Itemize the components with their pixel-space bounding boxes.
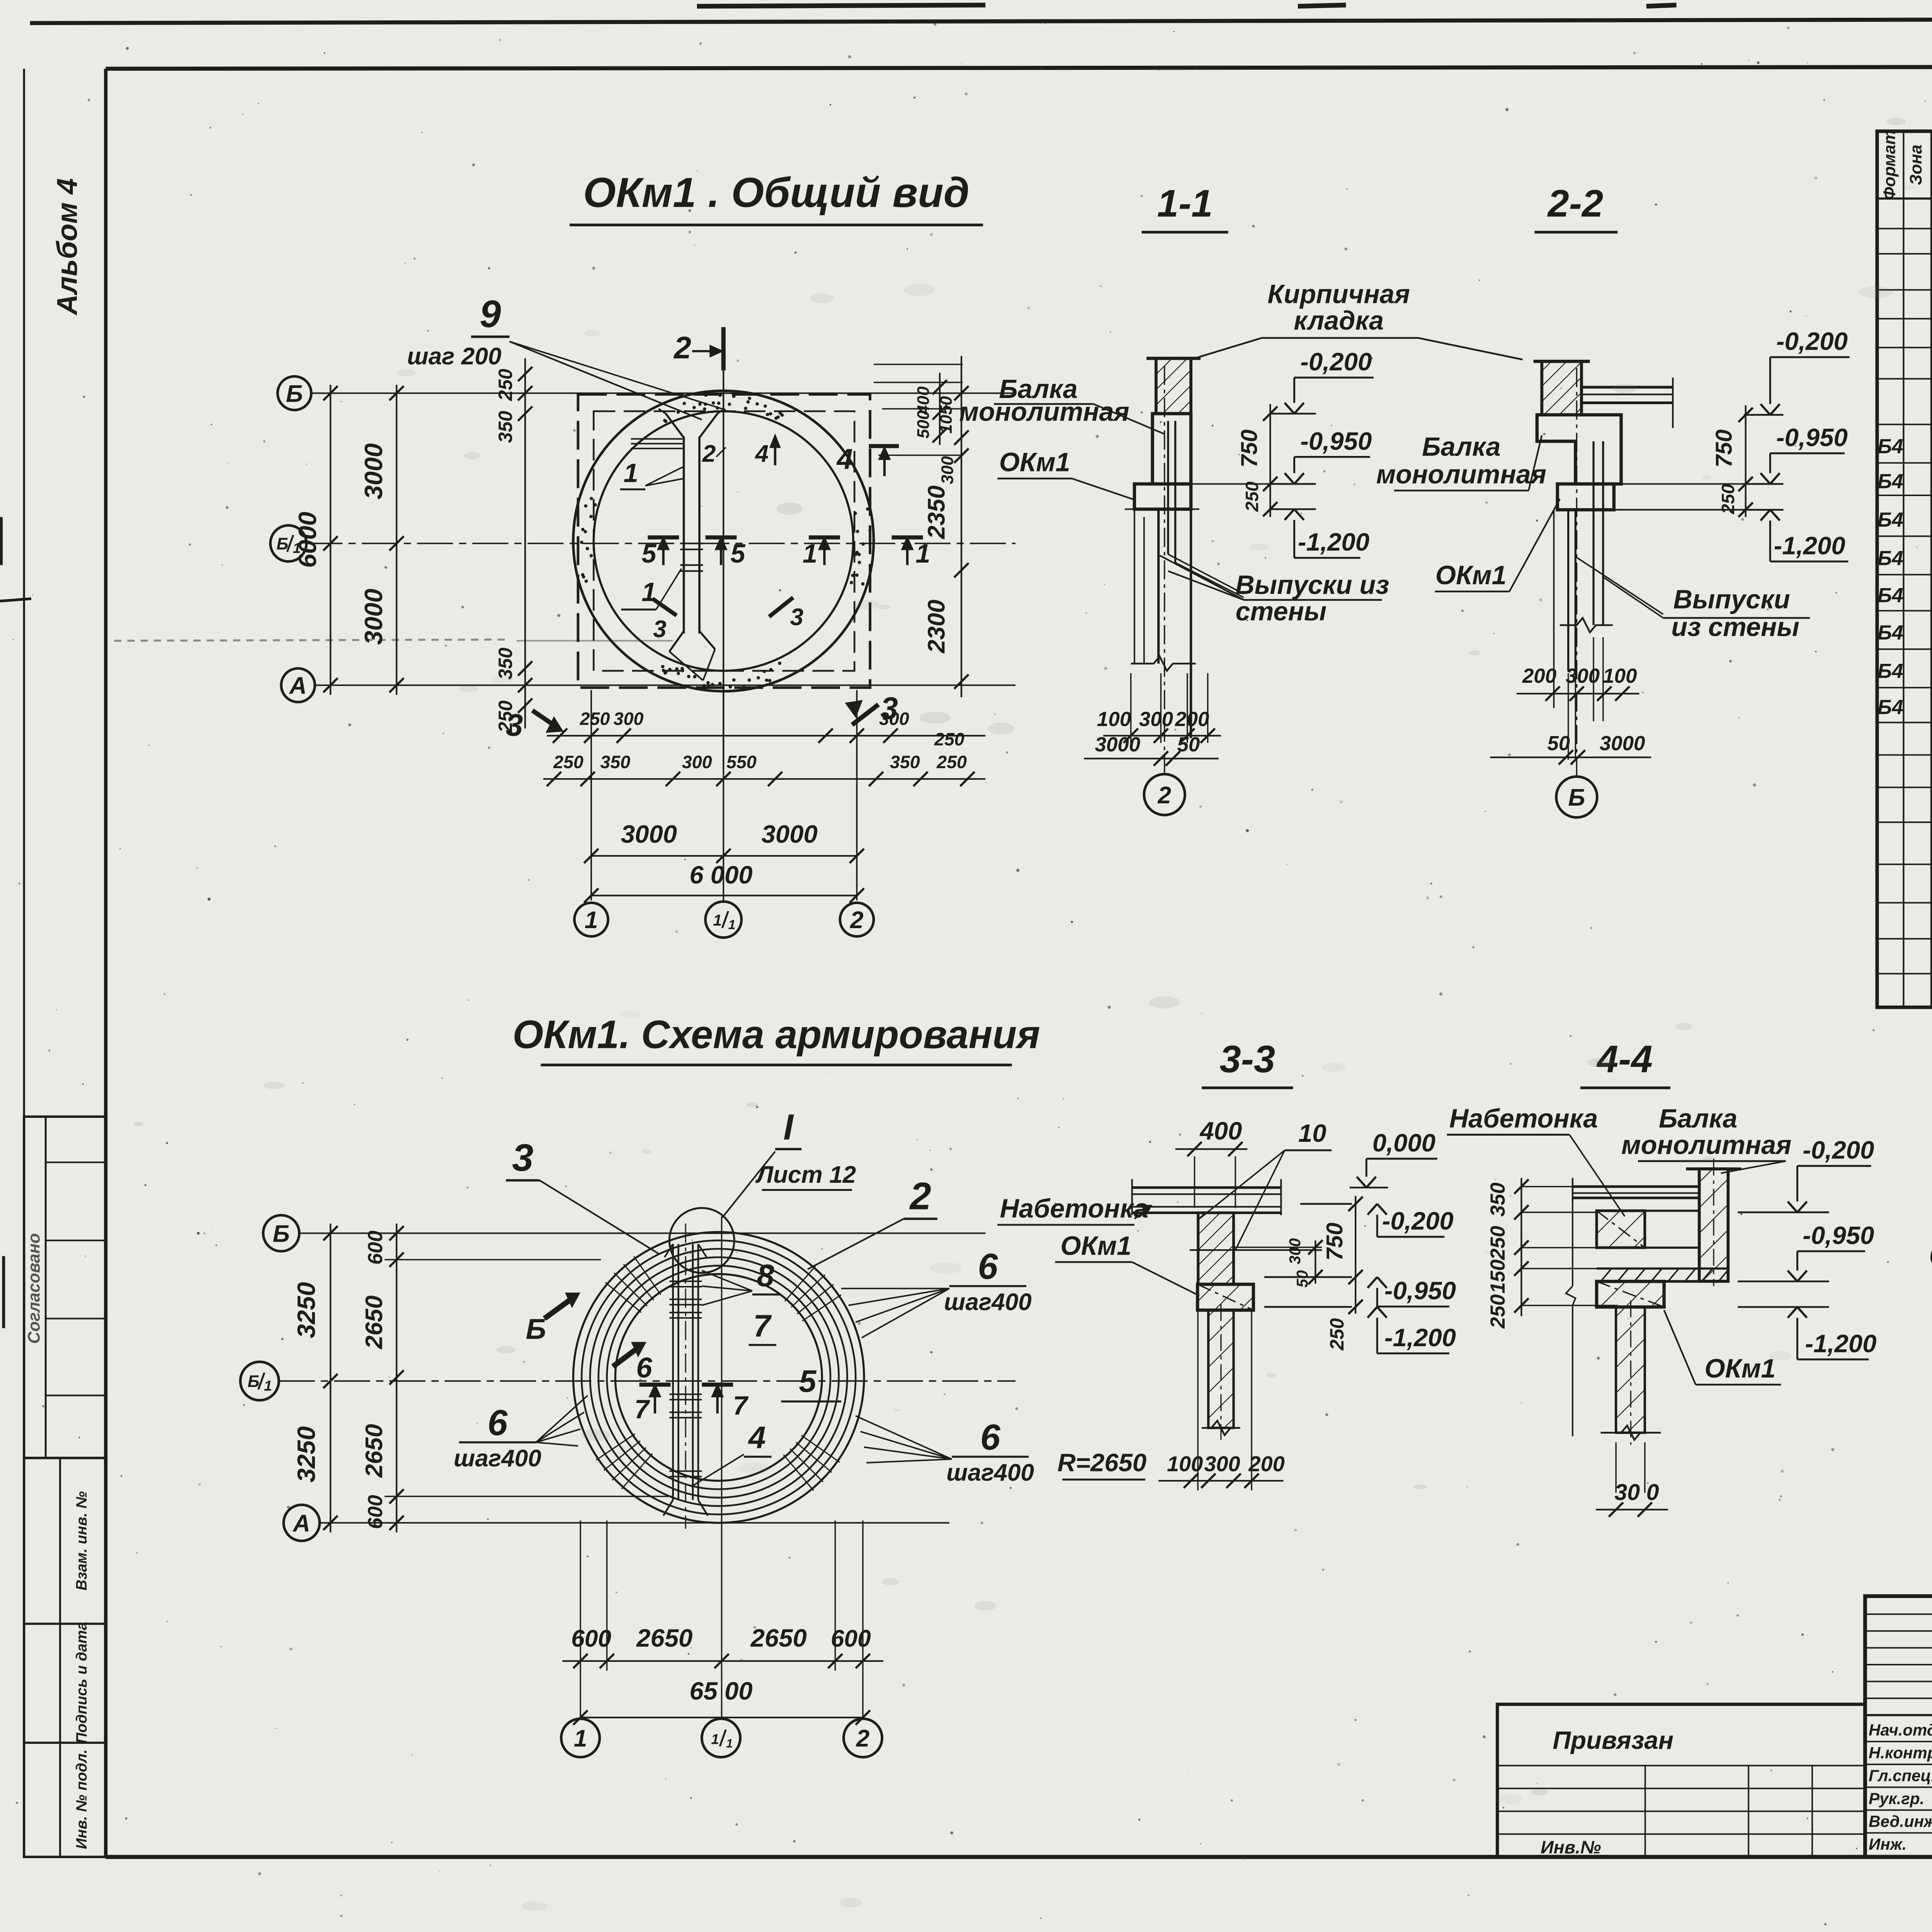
svg-text:3250: 3250 bbox=[292, 1426, 320, 1482]
svg-text:Б4: Б4 bbox=[1878, 509, 1903, 531]
svg-text:8: 8 bbox=[757, 1258, 774, 1293]
svg-text:Набетонка: Набетонка bbox=[1449, 1104, 1598, 1133]
svg-text:Инж.: Инж. bbox=[1869, 1835, 1906, 1853]
svg-text:из стены: из стены bbox=[1671, 612, 1799, 642]
svg-text:3000: 3000 bbox=[621, 820, 677, 848]
svg-text:шаг 200: шаг 200 bbox=[407, 343, 502, 370]
svg-text:1: 1 bbox=[713, 911, 721, 929]
svg-text:1: 1 bbox=[726, 1737, 733, 1750]
svg-text:600: 600 bbox=[571, 1625, 611, 1652]
svg-text:ОКм1: ОКм1 bbox=[1060, 1231, 1131, 1261]
svg-text:Инв. № подл.: Инв. № подл. bbox=[73, 1749, 90, 1849]
svg-text:10: 10 bbox=[1298, 1119, 1327, 1147]
svg-text:350: 350 bbox=[495, 648, 516, 680]
svg-text:3: 3 bbox=[653, 616, 667, 643]
svg-text:750: 750 bbox=[1236, 429, 1262, 468]
svg-text:Лист 12: Лист 12 bbox=[755, 1162, 856, 1188]
svg-text:1050: 1050 bbox=[937, 396, 956, 434]
svg-text:3: 3 bbox=[790, 604, 804, 631]
svg-text:300: 300 bbox=[938, 456, 957, 484]
svg-text:стены: стены bbox=[1235, 597, 1327, 626]
svg-text:3: 3 bbox=[506, 708, 523, 743]
svg-text:Выпуски из: Выпуски из bbox=[1235, 570, 1389, 600]
svg-text:Альбом 4: Альбом 4 bbox=[51, 178, 83, 316]
svg-text:Зона: Зона bbox=[1907, 145, 1925, 185]
svg-text:кладка: кладка bbox=[1294, 306, 1384, 335]
svg-text:3000: 3000 bbox=[1600, 732, 1645, 755]
svg-text:6 000: 6 000 bbox=[689, 861, 752, 889]
svg-text:2: 2 bbox=[909, 1175, 931, 1218]
svg-text:2: 2 bbox=[1157, 782, 1171, 809]
svg-text:Б: Б bbox=[248, 1372, 260, 1391]
svg-text:2650: 2650 bbox=[750, 1624, 807, 1652]
svg-text:Б: Б bbox=[526, 1313, 546, 1345]
svg-text:7: 7 bbox=[733, 1391, 749, 1420]
svg-text:250: 250 bbox=[553, 752, 583, 772]
svg-text:3: 3 bbox=[512, 1136, 533, 1179]
svg-text:1: 1 bbox=[264, 1378, 272, 1394]
svg-text:А: А bbox=[292, 1510, 310, 1537]
svg-text:250: 250 bbox=[495, 369, 516, 401]
svg-text:ОКм1: ОКм1 bbox=[999, 448, 1070, 477]
svg-text:-0,200: -0,200 bbox=[1803, 1136, 1874, 1164]
svg-text:Б4: Б4 bbox=[1878, 621, 1903, 644]
svg-text:Б4: Б4 bbox=[1878, 435, 1903, 458]
svg-text:300: 300 bbox=[1566, 665, 1600, 687]
svg-text:200: 200 bbox=[1175, 708, 1209, 731]
svg-text:1: 1 bbox=[574, 1725, 587, 1752]
svg-text:1: 1 bbox=[803, 539, 817, 568]
svg-text:3000: 3000 bbox=[762, 820, 818, 848]
svg-text:600: 600 bbox=[831, 1625, 871, 1652]
svg-text:250: 250 bbox=[1486, 1226, 1509, 1260]
svg-text:6: 6 bbox=[980, 1417, 1001, 1457]
svg-text:монолитная: монолитная bbox=[1621, 1130, 1791, 1160]
svg-text:-0,950: -0,950 bbox=[1300, 427, 1372, 455]
svg-text:1: 1 bbox=[585, 907, 598, 934]
svg-text:250: 250 bbox=[580, 709, 610, 729]
svg-text:2650: 2650 bbox=[361, 1296, 388, 1349]
svg-text:2: 2 bbox=[673, 330, 691, 365]
svg-text:Б4: Б4 bbox=[1878, 660, 1903, 683]
svg-text:4: 4 bbox=[748, 1420, 766, 1455]
svg-text:R=2650: R=2650 bbox=[1058, 1448, 1147, 1476]
svg-text:Сечения 5-5÷7-7 см. на листе: Сечения 5-5÷7-7 см. на листе 12. bbox=[1929, 1237, 1932, 1274]
svg-text:шаг400: шаг400 bbox=[454, 1445, 541, 1472]
svg-text:6: 6 bbox=[978, 1247, 998, 1287]
svg-text:300: 300 bbox=[1286, 1238, 1304, 1264]
svg-text:750: 750 bbox=[1322, 1223, 1347, 1261]
svg-text:Нач.отд.: Нач.отд. bbox=[1869, 1721, 1932, 1739]
svg-text:50: 50 bbox=[1547, 732, 1570, 755]
svg-text:350: 350 bbox=[890, 752, 920, 772]
svg-text:0,000: 0,000 bbox=[1372, 1129, 1435, 1157]
svg-text:I: I bbox=[783, 1107, 794, 1147]
svg-text:550: 550 bbox=[726, 752, 757, 772]
svg-text:6000: 6000 bbox=[293, 512, 321, 568]
svg-text:-1,200: -1,200 bbox=[1805, 1329, 1876, 1357]
svg-text:100: 100 bbox=[1167, 1451, 1203, 1476]
svg-text:7: 7 bbox=[753, 1309, 772, 1344]
svg-text:Балка: Балка bbox=[1659, 1104, 1737, 1133]
svg-text:3000: 3000 bbox=[359, 588, 388, 645]
svg-text:-1,200: -1,200 bbox=[1384, 1323, 1456, 1352]
svg-text:1: 1 bbox=[711, 1731, 719, 1747]
svg-text:Балка: Балка bbox=[1422, 432, 1500, 461]
svg-text:Б: Б bbox=[1568, 784, 1585, 811]
svg-text:2: 2 bbox=[702, 440, 716, 467]
svg-text:Кирпичная: Кирпичная bbox=[1267, 279, 1410, 309]
svg-text:50: 50 bbox=[1293, 1270, 1311, 1287]
svg-text:300: 300 bbox=[1139, 708, 1173, 731]
svg-text:А: А bbox=[289, 673, 307, 699]
svg-text:Б: Б bbox=[276, 535, 288, 553]
svg-text:250: 250 bbox=[934, 729, 964, 749]
svg-text:1: 1 bbox=[916, 539, 930, 568]
svg-text:Н.контр.: Н.контр. bbox=[1869, 1744, 1932, 1762]
svg-text:Набетонка: Набетонка bbox=[1000, 1194, 1148, 1223]
svg-text:3000: 3000 bbox=[359, 443, 388, 499]
svg-text:шаг400: шаг400 bbox=[944, 1289, 1032, 1316]
svg-text:ОКм1: ОКм1 bbox=[1435, 561, 1507, 590]
svg-text:500: 500 bbox=[914, 410, 933, 439]
svg-text:Вед.инж.: Вед.инж. bbox=[1869, 1812, 1932, 1830]
svg-text:150: 150 bbox=[1486, 1259, 1509, 1293]
svg-text:ОКм1: ОКм1 bbox=[1704, 1354, 1776, 1383]
svg-text:-1,200: -1,200 bbox=[1774, 531, 1845, 560]
svg-text:1: 1 bbox=[728, 918, 736, 932]
svg-text:6: 6 bbox=[488, 1403, 508, 1443]
svg-text:300: 300 bbox=[682, 752, 712, 772]
svg-text:200: 200 bbox=[1522, 665, 1556, 687]
svg-text:Взам. инв. №: Взам. инв. № bbox=[73, 1491, 90, 1590]
svg-text:65 00: 65 00 bbox=[689, 1677, 752, 1705]
svg-text:2-2: 2-2 bbox=[1547, 182, 1603, 225]
svg-text:Б: Б bbox=[286, 381, 303, 407]
svg-text:2650: 2650 bbox=[636, 1624, 692, 1652]
svg-text:3-3: 3-3 bbox=[1219, 1038, 1275, 1081]
svg-text:200: 200 bbox=[1248, 1451, 1284, 1476]
svg-text:Рук.гр.: Рук.гр. bbox=[1869, 1789, 1924, 1808]
svg-text:2: 2 bbox=[856, 1725, 870, 1752]
svg-text:5: 5 bbox=[799, 1364, 816, 1399]
svg-text:50: 50 bbox=[1177, 733, 1200, 756]
svg-text:Гл.спец.: Гл.спец. bbox=[1869, 1767, 1932, 1785]
svg-text:2: 2 bbox=[850, 907, 864, 934]
svg-text:-0,950: -0,950 bbox=[1803, 1221, 1874, 1250]
svg-text:4: 4 bbox=[754, 440, 769, 467]
svg-text:-0,950: -0,950 bbox=[1384, 1277, 1456, 1305]
svg-text:350: 350 bbox=[495, 411, 516, 443]
svg-text:Б4: Б4 bbox=[1878, 470, 1903, 493]
svg-text:250: 250 bbox=[1486, 1294, 1509, 1329]
svg-text:350: 350 bbox=[1486, 1182, 1509, 1216]
svg-text:250: 250 bbox=[1326, 1318, 1348, 1350]
svg-text:шаг400: шаг400 bbox=[946, 1459, 1034, 1486]
svg-text:5: 5 bbox=[731, 539, 746, 568]
svg-text:1-1: 1-1 bbox=[1157, 182, 1213, 225]
svg-text:6: 6 bbox=[636, 1351, 652, 1384]
svg-text:-0,200: -0,200 bbox=[1382, 1207, 1454, 1235]
svg-text:4: 4 bbox=[836, 443, 853, 475]
svg-text:3250: 3250 bbox=[292, 1282, 320, 1338]
svg-text:-0,200: -0,200 bbox=[1776, 327, 1848, 355]
svg-text:Б4: Б4 bbox=[1878, 584, 1903, 607]
svg-text:400: 400 bbox=[1199, 1117, 1242, 1145]
svg-text:250: 250 bbox=[936, 752, 967, 772]
svg-text:30 0: 30 0 bbox=[1614, 1480, 1659, 1505]
svg-text:Согласовано: Согласовано bbox=[25, 1233, 44, 1344]
svg-text:монолитная: монолитная bbox=[1376, 460, 1546, 489]
svg-text:Инв.№: Инв.№ bbox=[1541, 1837, 1601, 1857]
svg-text:100: 100 bbox=[1603, 665, 1637, 687]
svg-text:3000: 3000 bbox=[1095, 733, 1141, 756]
svg-text:Б4: Б4 bbox=[1878, 696, 1903, 719]
svg-text:Б4: Б4 bbox=[1878, 547, 1903, 570]
svg-text:Б: Б bbox=[273, 1221, 290, 1247]
svg-text:250: 250 bbox=[1718, 484, 1738, 514]
svg-text:5: 5 bbox=[641, 539, 656, 568]
svg-text:7: 7 bbox=[634, 1395, 650, 1424]
svg-text:Формат: Формат bbox=[1881, 130, 1899, 200]
svg-text:ОКм1 . Общий вид: ОКм1 . Общий вид bbox=[583, 169, 969, 216]
svg-text:2300: 2300 bbox=[923, 600, 950, 653]
svg-text:1: 1 bbox=[641, 578, 656, 607]
svg-text:монолитная: монолитная bbox=[959, 397, 1129, 427]
svg-text:250: 250 bbox=[1242, 481, 1262, 512]
svg-text:-0,200: -0,200 bbox=[1300, 348, 1372, 376]
svg-text:300: 300 bbox=[614, 709, 644, 729]
svg-text:600: 600 bbox=[364, 1495, 387, 1529]
svg-text:Подпись и дата: Подпись и дата bbox=[73, 1622, 90, 1743]
svg-text:350: 350 bbox=[600, 752, 630, 772]
svg-text:2350: 2350 bbox=[923, 485, 950, 539]
svg-text:3: 3 bbox=[881, 691, 898, 726]
svg-text:9: 9 bbox=[480, 293, 501, 336]
svg-text:100: 100 bbox=[1097, 708, 1131, 731]
svg-text:600: 600 bbox=[364, 1231, 387, 1265]
svg-text:1: 1 bbox=[624, 459, 638, 488]
svg-text:ОКм1. Схема армирования: ОКм1. Схема армирования bbox=[512, 1012, 1040, 1057]
svg-text:-1,200: -1,200 bbox=[1298, 528, 1369, 556]
svg-text:-0,950: -0,950 bbox=[1776, 423, 1848, 451]
svg-text:750: 750 bbox=[1711, 429, 1737, 468]
svg-text:2650: 2650 bbox=[361, 1424, 388, 1478]
svg-text:300: 300 bbox=[1204, 1451, 1240, 1476]
svg-text:Выпуски: Выпуски bbox=[1673, 585, 1790, 614]
svg-text:Привязан: Привязан bbox=[1553, 1726, 1673, 1754]
